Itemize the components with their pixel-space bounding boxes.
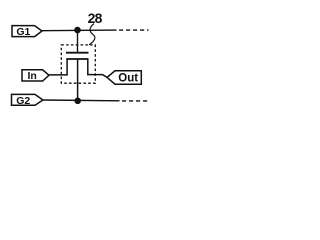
svg-text:Out: Out (118, 73, 138, 85)
svg-text:G1: G1 (16, 26, 30, 38)
pin break squiggle at pin 28 (89, 24, 95, 45)
wire gate stem from top junction into dashed box (77, 30, 79, 52)
node In (input tag In) (22, 70, 49, 82)
node G2 (input tag G2) (12, 94, 43, 106)
node Out (output tag Out) (107, 71, 141, 85)
wire G2 to bottom junction (43, 99, 120, 102)
node G1 (input tag G1) (12, 26, 42, 38)
svg-text:In: In (28, 70, 37, 82)
wire top dashed continuation to right (119, 29, 149, 31)
transistor Q1 drain leg (right) (88, 59, 107, 77)
junction top node (pin 28) (74, 27, 81, 34)
transistor Q1 source leg (left) (49, 59, 67, 75)
junction bottom node (74, 98, 81, 105)
transistor Q1 channel bar (66, 58, 88, 60)
dashed enclosure box around transistor (61, 45, 95, 83)
wire G1 to top junction (42, 29, 117, 32)
transistor Q1 substrate stem to bottom junction (77, 59, 79, 101)
svg-text:G2: G2 (16, 95, 30, 107)
svg-text:28: 28 (88, 10, 103, 26)
transistor Q1 gate plate (66, 52, 89, 54)
wire bottom dashed continuation to right (122, 100, 149, 102)
